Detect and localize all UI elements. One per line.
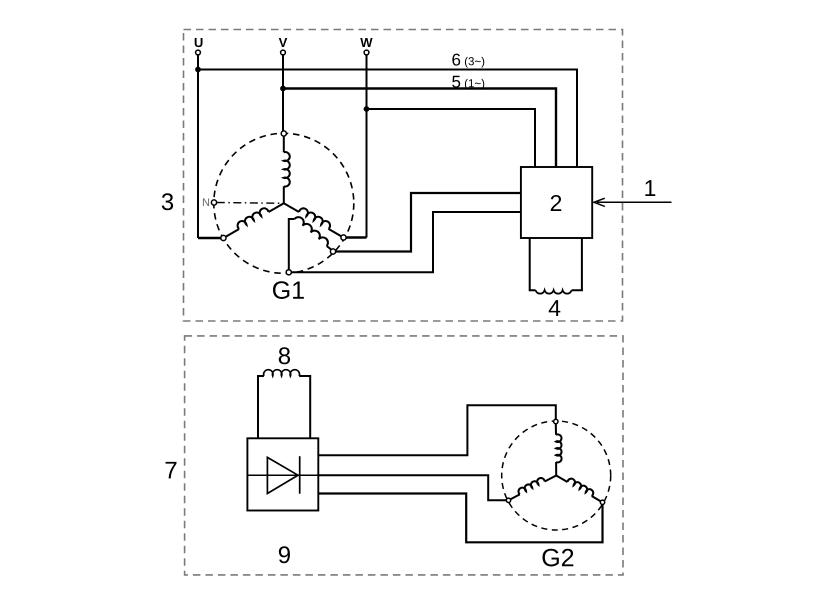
label V [279, 38, 287, 47]
wire W stub to G1 [346, 236, 367, 238]
wire W vertical [366, 55, 368, 238]
G1 terminal aux [330, 249, 335, 254]
node N dash-dot lead [217, 202, 284, 205]
label W [360, 38, 372, 47]
rectifier box 9 [247, 438, 318, 510]
G2 terminal lower-right [600, 500, 604, 504]
junction V [280, 86, 286, 92]
G1 terminal V (top) [281, 131, 286, 136]
wire U stub to G1 [198, 237, 221, 239]
label 5 (1~) [452, 76, 460, 88]
generator G1 stator circle [214, 133, 354, 273]
G2 terminal top [554, 419, 558, 423]
label N [203, 198, 209, 206]
label 3 [162, 193, 173, 210]
G1 phase winding V (top) [283, 136, 285, 152]
label U [195, 38, 203, 47]
enclosure box 7 (dashed) [185, 336, 623, 575]
G2 winding lower-left [545, 476, 557, 482]
wire rectifier top to G2 [318, 405, 556, 455]
G1 terminal N [211, 200, 216, 205]
terminal U [196, 50, 201, 55]
label 8 [279, 347, 290, 364]
label 9 [279, 546, 290, 563]
label 6 (3~) [452, 54, 460, 66]
G1 terminal bottom [286, 270, 291, 275]
G1 auxiliary winding [289, 219, 295, 270]
generator G2 stator circle [502, 421, 611, 530]
wire 5 (1-phase output) [283, 89, 556, 168]
label 4 [549, 300, 561, 316]
converter box 2 [521, 167, 592, 238]
wire aux winding to box 2 [336, 193, 521, 252]
wire V vertical [282, 55, 284, 131]
wire rectifier mid to G2 [318, 475, 506, 500]
diode symbol [247, 474, 318, 476]
exciter winding 8 [258, 376, 264, 438]
terminal V [281, 50, 286, 55]
wire rectifier bottom to G2 [318, 494, 602, 543]
G1 terminal W (lower-right) [341, 235, 346, 240]
enclosure box 3 (dashed) [184, 30, 623, 322]
arrow 1 (drive input) [597, 201, 672, 203]
G2 terminal lower-left [506, 498, 510, 502]
label G1 [273, 281, 304, 299]
wire W branch to box 2 [367, 109, 536, 167]
wire U vertical [197, 55, 199, 238]
wire bottom terminal to box 2 [291, 212, 521, 272]
G1 phase winding U (lower-left) [269, 203, 284, 212]
label 7 [166, 462, 177, 479]
label 2 [551, 195, 561, 211]
G1 phase winding W (lower-right) [284, 203, 299, 212]
junction U [195, 67, 201, 73]
G2 winding top [555, 424, 557, 435]
wire 6 (3-phase output) [198, 70, 577, 168]
terminal W [364, 50, 369, 55]
label G2 [542, 549, 573, 567]
junction W [364, 106, 370, 112]
label 1 [645, 180, 655, 196]
winding box 4 [530, 238, 536, 290]
G1 terminal U (lower-left) [221, 235, 226, 240]
G2 winding lower-right [556, 476, 567, 483]
